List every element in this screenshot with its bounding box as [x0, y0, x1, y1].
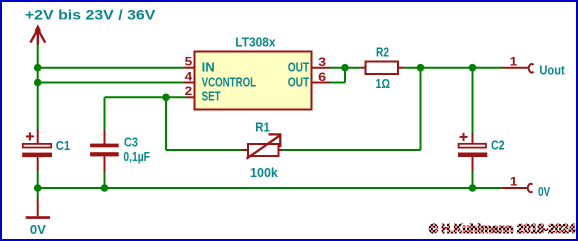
svg-text:VCONTROL: VCONTROL	[202, 75, 257, 90]
svg-text:1: 1	[510, 175, 518, 189]
svg-text:C1: C1	[56, 138, 70, 153]
svg-text:0V: 0V	[538, 184, 550, 199]
svg-text:OUT: OUT	[288, 75, 310, 90]
svg-text:0V: 0V	[30, 222, 46, 237]
svg-text:5: 5	[185, 54, 193, 68]
svg-text:+2V bis 23V / 36V: +2V bis 23V / 36V	[25, 8, 156, 23]
svg-text:© H.Kuhlmann 2018-2024: © H.Kuhlmann 2018-2024	[429, 221, 576, 236]
svg-text:LT308x: LT308x	[235, 34, 276, 49]
svg-text:R1: R1	[255, 120, 270, 135]
svg-text:OUT: OUT	[288, 60, 310, 75]
svg-text:Uout: Uout	[539, 62, 565, 77]
svg-text:IN: IN	[202, 60, 215, 75]
svg-text:3: 3	[318, 55, 326, 69]
svg-text:C3: C3	[124, 135, 138, 150]
svg-text:0,1µF: 0,1µF	[123, 149, 150, 164]
svg-text:R2: R2	[376, 45, 389, 60]
svg-text:SET: SET	[202, 89, 221, 104]
svg-text:6: 6	[318, 70, 326, 84]
svg-text:1Ω: 1Ω	[376, 76, 391, 91]
svg-text:1: 1	[510, 55, 518, 69]
svg-text:C2: C2	[491, 138, 505, 153]
svg-text:2: 2	[185, 84, 193, 98]
svg-text:100k: 100k	[250, 165, 279, 180]
svg-text:4: 4	[185, 69, 193, 83]
